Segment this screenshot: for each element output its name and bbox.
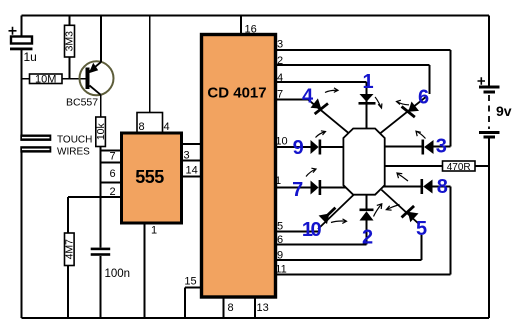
svg-text:470R: 470R: [447, 162, 471, 173]
svg-text:9: 9: [277, 250, 283, 262]
wire pin 6 to LED2: [276, 222, 367, 245]
LED 6: [380, 96, 427, 134]
svg-text:2: 2: [362, 227, 373, 249]
LED 4: [308, 88, 349, 133]
wire 555 pin3 to 4017 pin14 cells: [182, 144, 204, 177]
resistor 4M7: [63, 233, 75, 266]
svg-text:6: 6: [418, 87, 429, 109]
svg-text:4: 4: [277, 72, 283, 84]
LED 7: [306, 168, 346, 195]
wire left rail lower segment: [21, 152, 23, 318]
wire 4M7 to bottom rail: [67, 266, 69, 319]
svg-text:15: 15: [184, 276, 196, 288]
LED 5: [382, 190, 420, 225]
wire pin 2 to LED6: [276, 65, 430, 94]
svg-text:555: 555: [135, 167, 164, 187]
LED 2: [360, 195, 382, 245]
wire pin 5 to LED10: [276, 231, 321, 233]
svg-text:10: 10: [275, 136, 287, 148]
svg-text:3: 3: [277, 39, 283, 51]
svg-text:6: 6: [109, 168, 115, 180]
battery 9v: [478, 16, 512, 319]
svg-text:10M: 10M: [35, 74, 56, 86]
555 pin 8-4 supply box: [137, 113, 163, 134]
wire 10k to 555 pins column: [100, 147, 102, 248]
svg-text:9v: 9v: [496, 103, 512, 119]
wire pin 3 to LED3: [276, 50, 451, 147]
IC U2 CD4017: [202, 35, 276, 298]
wire bottom supply rail: [22, 317, 490, 319]
svg-text:7: 7: [109, 151, 115, 163]
capacitor 100n: [91, 248, 130, 280]
svg-text:8: 8: [228, 302, 234, 314]
svg-text:BC557: BC557: [66, 97, 98, 109]
capacitor 1u: [9, 27, 37, 64]
wire to 4M7 and pin 2: [68, 197, 122, 233]
LED 8: [383, 173, 451, 194]
svg-text:4: 4: [302, 86, 314, 108]
wire 4017 pin 8 to bottom rail: [223, 297, 225, 318]
svg-text:9: 9: [293, 137, 304, 159]
svg-text:6: 6: [277, 234, 283, 246]
svg-text:100n: 100n: [105, 268, 131, 280]
svg-text:1: 1: [151, 225, 157, 237]
svg-text:8: 8: [437, 176, 448, 198]
resistor 3M3: [64, 16, 76, 79]
wire left rail upper segment: [21, 16, 23, 136]
svg-text:2: 2: [277, 55, 283, 67]
svg-text:3M3: 3M3: [64, 31, 76, 52]
wire pin 1 to LED7: [276, 187, 311, 189]
wire collector down: [100, 95, 102, 117]
svg-text:1: 1: [362, 71, 373, 93]
svg-text:3: 3: [184, 150, 190, 162]
svg-text:1: 1: [275, 175, 281, 187]
svg-text:10k: 10k: [95, 122, 107, 140]
transistor Q1 BC557: [66, 61, 114, 108]
wire pin 10 to LED9: [276, 146, 311, 148]
resistor 10k: [95, 117, 107, 147]
wire pin stubs to 555: [101, 151, 122, 183]
wire pin 7 to LED4: [276, 99, 309, 101]
svg-text:5: 5: [416, 218, 427, 240]
LED 1: [359, 94, 382, 129]
svg-text:7: 7: [292, 179, 303, 201]
svg-text:7: 7: [277, 89, 283, 101]
LED 3: [385, 131, 451, 154]
svg-text:4M7: 4M7: [63, 239, 75, 260]
resistor 470R: [385, 161, 489, 173]
svg-text:4: 4: [163, 121, 169, 133]
wire top rail to 555 supply box: [149, 16, 151, 113]
svg-text:11: 11: [275, 264, 286, 276]
wire top rail to 4017 pin 16: [240, 16, 242, 35]
wire emitter to top rail: [100, 16, 102, 63]
svg-text:10: 10: [302, 219, 322, 241]
svg-text:2: 2: [109, 186, 115, 198]
svg-text:3: 3: [436, 136, 447, 158]
wire 4017 pin 15 to bottom rail: [185, 288, 202, 319]
LED 9: [311, 131, 344, 155]
svg-text:CD 4017: CD 4017: [207, 85, 266, 102]
wire pin 11 to LED8: [276, 187, 451, 275]
svg-text:13: 13: [257, 302, 269, 314]
wire 4017 pin 13 to bottom rail: [254, 297, 256, 318]
wire pin 9 to LED5: [276, 235, 422, 260]
svg-text:TOUCH: TOUCH: [57, 135, 92, 146]
svg-text:8: 8: [138, 121, 144, 133]
svg-text:14: 14: [186, 165, 198, 177]
svg-text:WIRES: WIRES: [57, 147, 90, 158]
wire 100n to bottom rail: [100, 256, 102, 318]
wire top supply rail: [22, 15, 490, 17]
LED 10: [318, 195, 353, 229]
wire 555 pin 1 to bottom rail: [144, 223, 146, 318]
resistor 10M: [22, 74, 86, 86]
svg-text:1u: 1u: [24, 50, 37, 64]
wire pin 4 to LED1: [276, 82, 367, 94]
touch wires plates: [20, 135, 92, 158]
node octagon LED ring: [343, 129, 384, 195]
IC U1 555 timer: [122, 133, 182, 223]
svg-text:5: 5: [277, 221, 283, 233]
